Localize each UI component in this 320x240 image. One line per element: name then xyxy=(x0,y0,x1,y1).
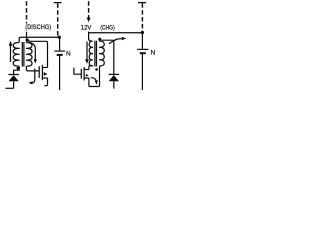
svg-text:12V: 12V xyxy=(81,26,92,32)
svg-text:(DISCHG): (DISCHG) xyxy=(25,25,51,31)
svg-text:(CHG): (CHG) xyxy=(100,25,115,31)
svg-text:N: N xyxy=(66,51,71,58)
svg-text:N: N xyxy=(151,50,156,57)
